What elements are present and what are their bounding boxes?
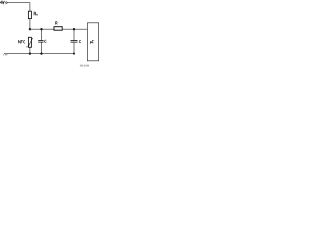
wire NTC to ground rail (29, 47, 31, 53)
node +5V label (0, 1, 4, 4)
thermistor NTC label (18, 40, 25, 43)
terminal +5V circle (6, 2, 8, 4)
ground rail junction dot NTC (29, 52, 31, 54)
microcontroller U1 box (87, 23, 98, 61)
resistor Rv (28, 11, 31, 18)
ground marks (3, 54, 7, 56)
wire C1 to ground rail (41, 42, 43, 53)
node B junction dot (40, 28, 42, 30)
wire from +5V terminal to Rv (7, 3, 30, 12)
node A junction dot (29, 28, 31, 30)
wire Rv to node A (29, 19, 31, 30)
ground rail (4, 53, 74, 55)
thermistor NTC body (28, 37, 31, 47)
watermark text (80, 65, 89, 67)
capacitor C1 (38, 41, 43, 43)
wire node A to resistor R (30, 28, 54, 30)
resistor R (54, 27, 62, 31)
wire R to uC (62, 28, 87, 30)
ground rail junction dot C2 (73, 53, 75, 55)
node C junction dot (73, 28, 75, 30)
microcontroller U1 label (90, 40, 93, 43)
capacitor C2 label (79, 40, 81, 42)
wire C2 to ground rail (73, 42, 75, 53)
resistor R label (56, 22, 58, 25)
wire node B down to capacitor C1 (41, 29, 43, 40)
capacitor C2 (71, 41, 78, 43)
resistor Rv label (34, 12, 38, 15)
wire node C down to capacitor C2 (73, 29, 75, 40)
ground rail junction dot C1 (40, 52, 42, 54)
capacitor C1 label (45, 40, 47, 42)
thermistor NTC diagonal (26, 38, 32, 47)
